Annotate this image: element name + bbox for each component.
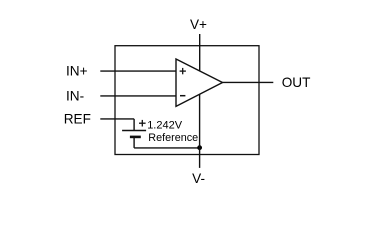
svg-text:V+: V+ [190, 17, 207, 32]
battery bottom lead [133, 137, 135, 148]
svg-text:1.242V: 1.242V [147, 120, 183, 132]
REF label [64, 112, 91, 127]
V+ supply lead [199, 34, 201, 71]
IN- wire [100, 95, 176, 97]
V- supply lead [199, 94, 201, 168]
op-amp - input marker [180, 95, 185, 97]
svg-text:Reference: Reference [148, 132, 198, 144]
battery reference cell top lead [133, 119, 135, 131]
svg-text:V-: V- [192, 171, 205, 186]
IN+ wire [100, 70, 176, 72]
REF wire [100, 118, 134, 120]
battery short plate [130, 136, 141, 139]
OUT label [282, 75, 311, 90]
junction dot [197, 145, 202, 150]
IN- label [66, 89, 84, 104]
OUT wire [223, 81, 274, 83]
op-amp + input marker [180, 68, 186, 74]
IN+ label [66, 64, 88, 79]
Reference label [148, 132, 198, 144]
device outline box [115, 46, 259, 155]
svg-text:OUT: OUT [282, 75, 311, 90]
reference ground return wire [134, 147, 200, 149]
op-amp U1 [176, 59, 223, 106]
battery + polarity marker [139, 120, 146, 127]
battery long plate [122, 130, 146, 132]
1.242V value label [147, 120, 183, 132]
svg-text:IN-: IN- [66, 89, 84, 104]
svg-text:REF: REF [64, 112, 91, 127]
svg-text:IN+: IN+ [66, 64, 88, 79]
V+ label [190, 17, 207, 32]
V- label [192, 171, 205, 186]
